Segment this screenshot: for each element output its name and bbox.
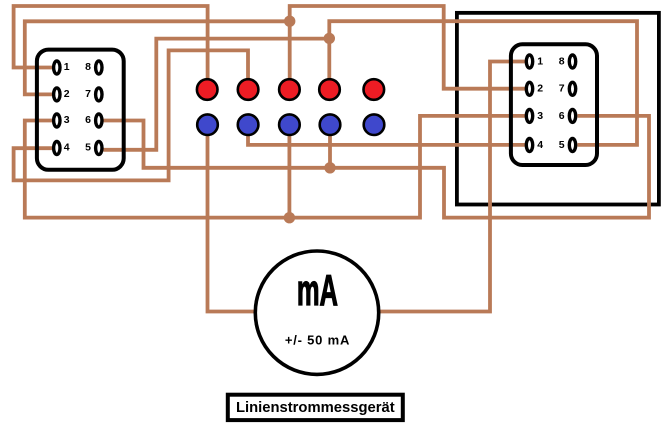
J2 pin 2 [526, 82, 532, 95]
wire net5: pin5 left connector up to junction dot C [104, 39, 330, 150]
red terminal R1 [197, 79, 218, 100]
J1 pin 7 [96, 88, 102, 101]
J2 pin 3 [526, 109, 532, 122]
svg-text:mA: mA [297, 265, 338, 315]
right connector body J2 [511, 44, 597, 165]
milliammeter M1 body [255, 251, 378, 374]
svg-text:5: 5 [85, 142, 91, 154]
J1 pin 8 [96, 61, 102, 74]
svg-text:1: 1 [537, 55, 543, 67]
wire net2: pin2 left connector to junction dot A [25, 21, 290, 94]
left connector body J1 [37, 50, 124, 170]
junction dot D [324, 162, 335, 173]
J2 pin 1 [526, 55, 532, 68]
wire net2: junction dot A down to red terminal R3 and up over to pin2 right connector [290, 6, 525, 89]
junction dot B [284, 212, 295, 223]
J2 pin 4 [526, 139, 532, 152]
svg-text:Linienstrommessgerät: Linienstrommessgerät [236, 400, 395, 416]
J2 pin 7 [569, 82, 575, 95]
svg-text:8: 8 [85, 61, 91, 73]
J2 pin 5 [569, 139, 575, 152]
J1 pin 3 [54, 114, 60, 127]
J1 pin 6 [96, 114, 102, 127]
wire net6: pin6 left connector along row to pin6 right connector [104, 116, 650, 218]
wire net7: pin1 right connector down to milliammeter right terminal [379, 62, 525, 312]
svg-text:3: 3 [537, 110, 543, 122]
J1 pin 2 [54, 88, 60, 101]
red terminal R5 [364, 79, 385, 100]
red terminal R4 [319, 79, 340, 100]
svg-text:5: 5 [559, 139, 565, 151]
svg-text:2: 2 [537, 83, 543, 95]
junction dot A [284, 16, 295, 27]
svg-text:3: 3 [64, 114, 70, 126]
J2 pin 8 [569, 55, 575, 68]
wire net3: blue terminal B3 down to junction dot B [287, 128, 291, 218]
red terminal R3 [279, 79, 300, 100]
wire net3: pin3 left connector along bottom to pin3 right connector [25, 116, 525, 218]
svg-text:2: 2 [64, 88, 70, 100]
svg-text:4: 4 [64, 142, 70, 154]
wire net8: blue terminal B1 down to milliammeter left terminal [208, 128, 257, 312]
wire net6: blue terminal B4 down to junction dot D [328, 128, 332, 168]
J2 pin 6 [569, 109, 575, 122]
svg-text:+/- 50 mA: +/- 50 mA [285, 333, 350, 348]
svg-text:6: 6 [85, 114, 91, 126]
black enclosure box around right connector [457, 13, 659, 205]
blue terminal B4 [320, 114, 341, 135]
J1 pin 5 [96, 142, 102, 155]
svg-text:6: 6 [559, 110, 565, 122]
svg-text:7: 7 [85, 88, 91, 100]
blue terminal B5 [364, 114, 385, 135]
J1 pin 4 [54, 142, 60, 155]
red terminal R2 [238, 79, 259, 100]
svg-text:7: 7 [559, 83, 565, 95]
blue terminal B3 [279, 114, 300, 135]
wire net5: junction dot C down to red terminal R4 and over to pin5 right connector [329, 21, 637, 145]
blue terminal B2 [238, 114, 259, 135]
wire net4: pin4 left connector up to red terminal R2 [14, 50, 248, 180]
J1 pin 1 [54, 61, 60, 74]
wire net1: pin1 left connector to red terminal R1 [14, 6, 208, 85]
svg-text:4: 4 [537, 139, 543, 151]
junction dot C [324, 33, 335, 44]
device label box [228, 395, 403, 420]
wire net9: blue terminal B2 to pin4 right connector [248, 128, 525, 145]
svg-text:8: 8 [559, 55, 565, 67]
blue terminal B1 [197, 114, 218, 135]
svg-text:1: 1 [64, 61, 70, 73]
